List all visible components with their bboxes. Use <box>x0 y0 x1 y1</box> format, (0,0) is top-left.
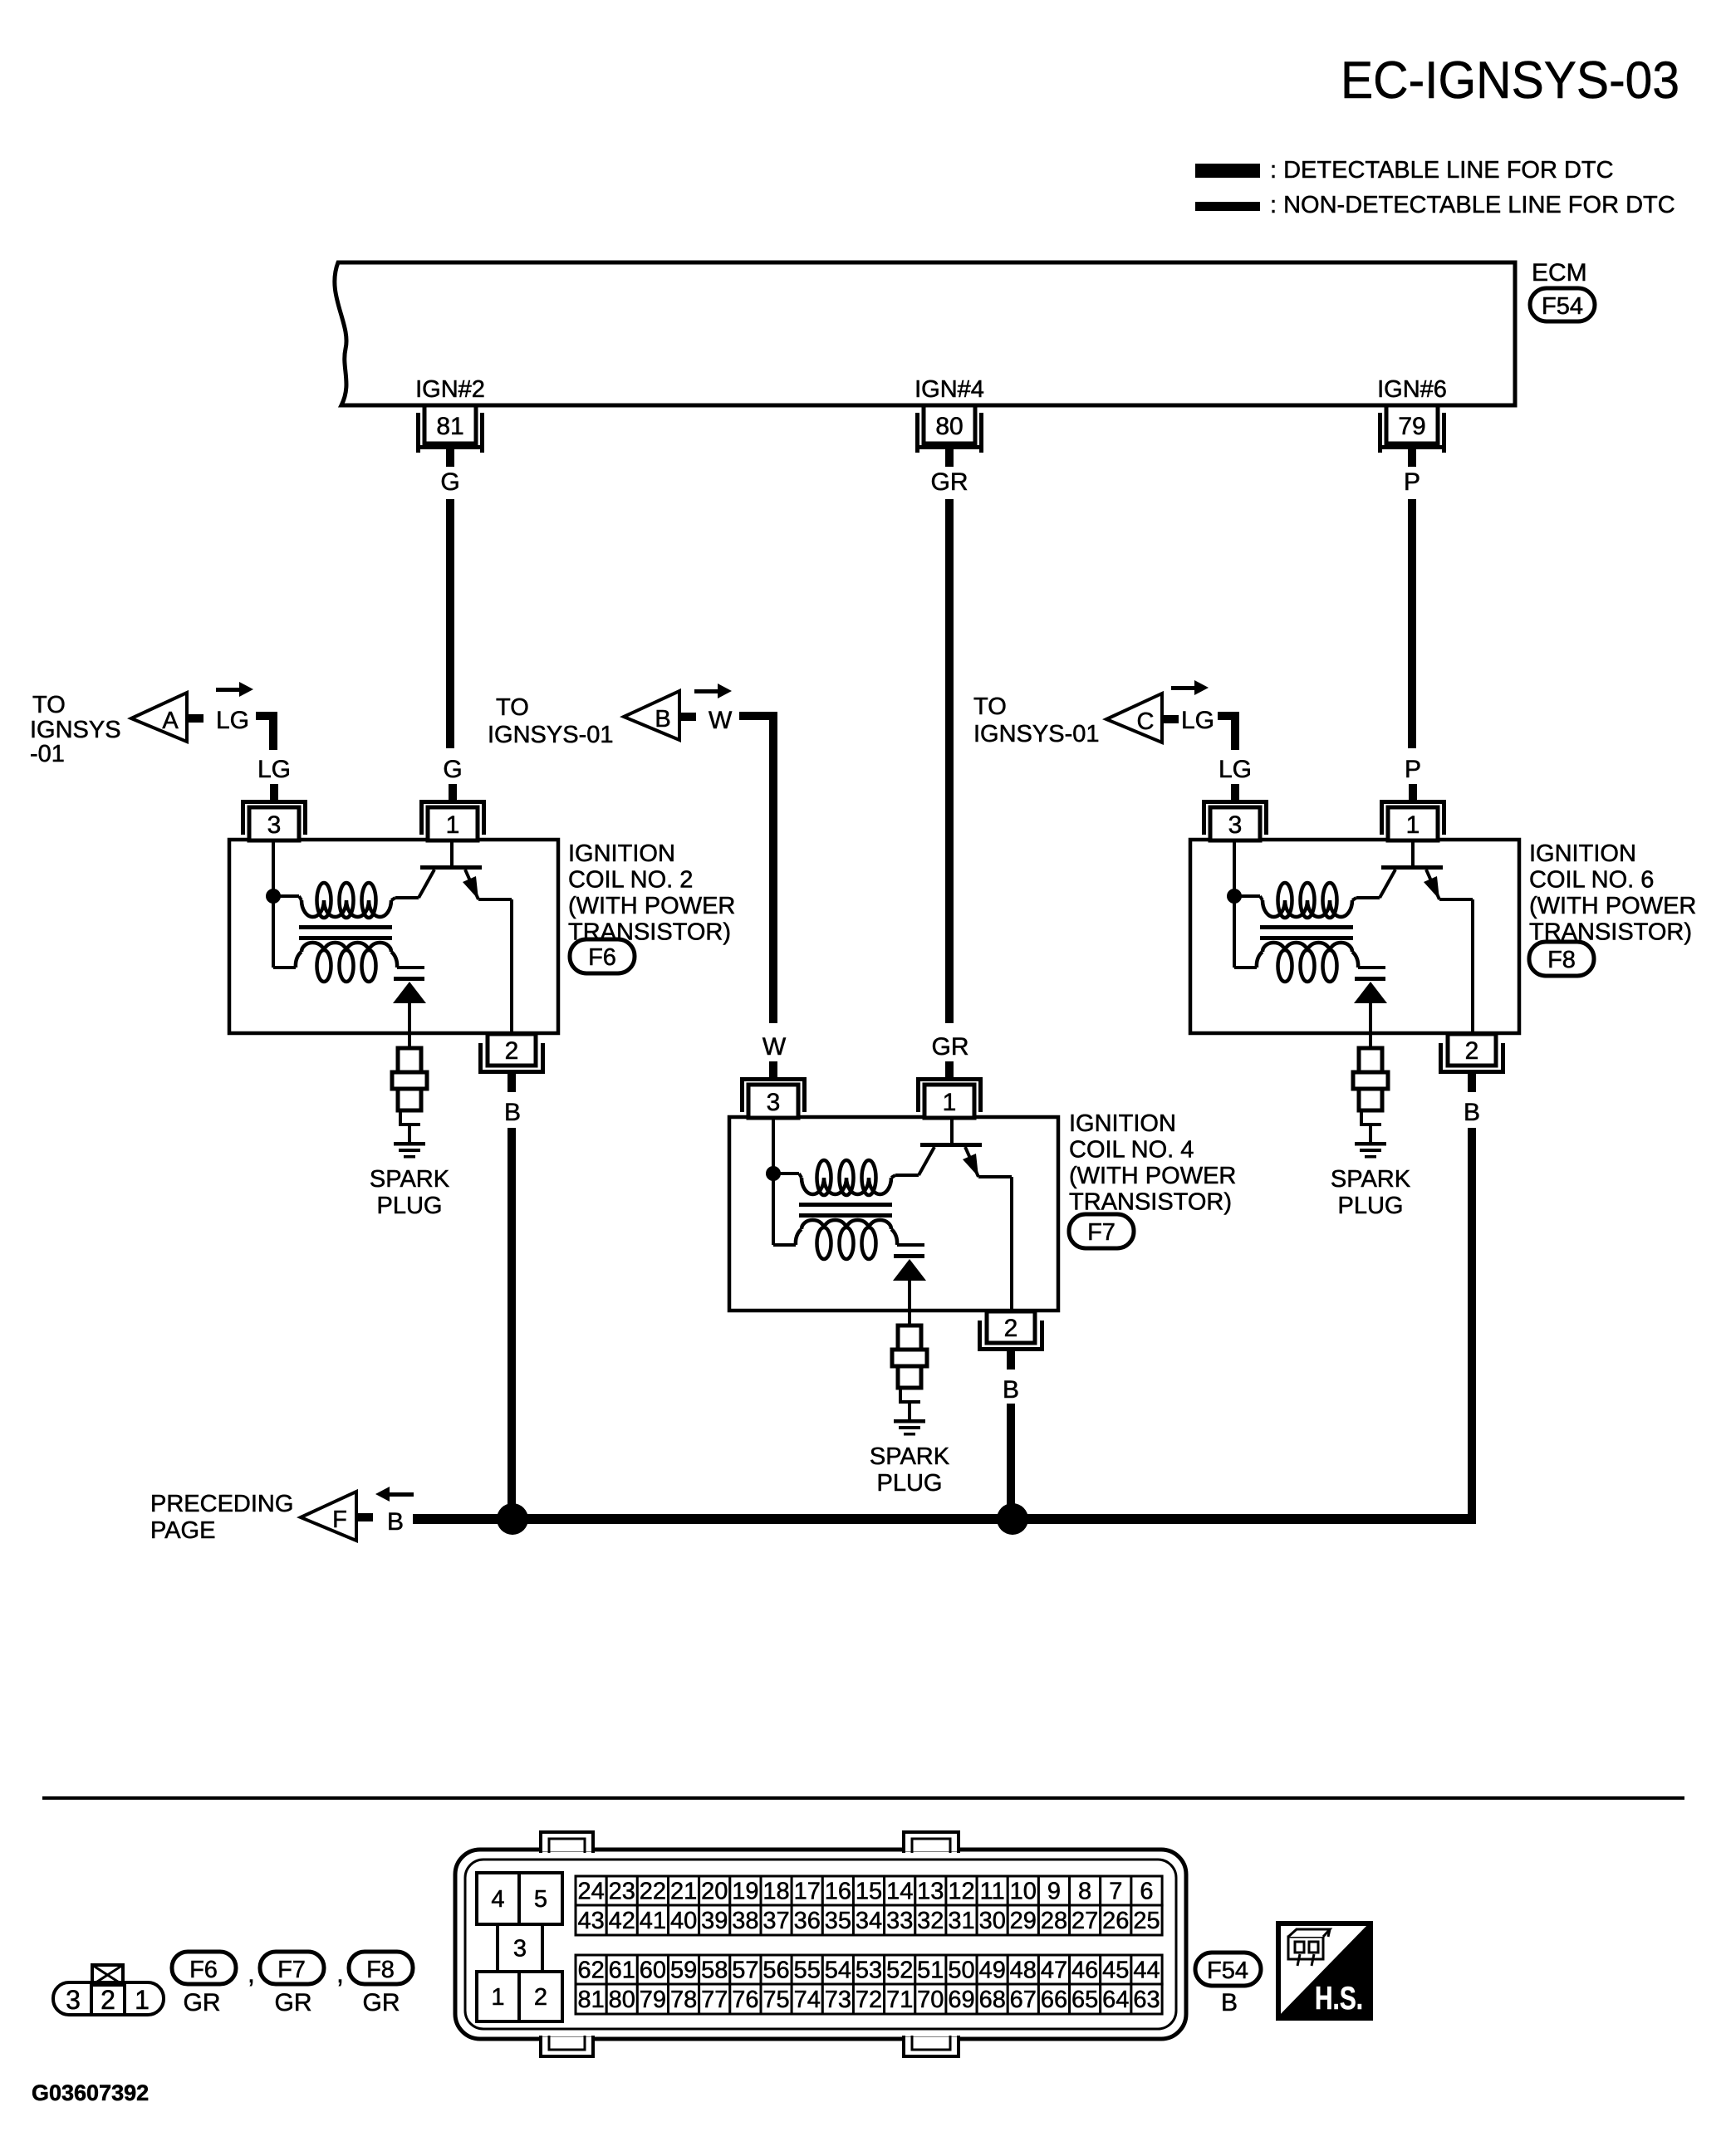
svg-text:16: 16 <box>825 1879 851 1905</box>
svg-text:W: W <box>762 1033 787 1061</box>
svg-text:2: 2 <box>1465 1037 1479 1065</box>
svg-text:G: G <box>440 468 459 496</box>
svg-text:41: 41 <box>640 1908 666 1934</box>
svg-text:3: 3 <box>66 1985 81 2015</box>
svg-text:19: 19 <box>732 1879 758 1905</box>
svg-text:GR: GR <box>363 1989 400 2016</box>
svg-text:SPARK: SPARK <box>370 1166 450 1193</box>
svg-text:67: 67 <box>1010 1987 1037 2013</box>
svg-text:63: 63 <box>1133 1987 1160 2013</box>
svg-text:3: 3 <box>767 1089 781 1116</box>
svg-text:PRECEDING: PRECEDING <box>150 1491 293 1517</box>
svg-text:35: 35 <box>825 1908 851 1934</box>
svg-text:81: 81 <box>436 413 463 440</box>
svg-text:61: 61 <box>609 1958 635 1984</box>
svg-text:H.S.: H.S. <box>1315 1981 1363 2016</box>
svg-text:60: 60 <box>640 1958 666 1984</box>
svg-text:56: 56 <box>762 1958 789 1984</box>
svg-text:40: 40 <box>670 1908 697 1934</box>
svg-text:71: 71 <box>886 1987 913 2013</box>
svg-text:44: 44 <box>1133 1958 1160 1984</box>
svg-text:F7: F7 <box>1087 1219 1116 1246</box>
svg-text:66: 66 <box>1041 1987 1067 2013</box>
svg-text:1: 1 <box>1406 811 1420 839</box>
svg-text:24: 24 <box>577 1879 604 1905</box>
svg-text:: NON-DETECTABLE LINE FOR DTC: : NON-DETECTABLE LINE FOR DTC <box>1270 192 1675 218</box>
svg-text:GR: GR <box>184 1989 221 2016</box>
svg-text:26: 26 <box>1102 1908 1129 1934</box>
svg-text:2: 2 <box>534 1984 547 2011</box>
svg-text:IGNITION: IGNITION <box>1069 1110 1176 1137</box>
svg-text:F8: F8 <box>366 1957 395 1983</box>
svg-text:69: 69 <box>948 1987 974 2013</box>
svg-text:B: B <box>1464 1099 1480 1126</box>
svg-text:8: 8 <box>1078 1879 1091 1905</box>
svg-text:F54: F54 <box>1542 293 1583 320</box>
svg-text:IGN#4: IGN#4 <box>914 376 984 403</box>
svg-text:31: 31 <box>948 1908 974 1934</box>
svg-text:F6: F6 <box>588 944 616 971</box>
svg-text:54: 54 <box>825 1958 851 1984</box>
svg-text:C: C <box>1137 708 1155 735</box>
svg-text:TO: TO <box>973 693 1007 720</box>
svg-text:F6: F6 <box>189 1957 218 1983</box>
svg-text:SPARK: SPARK <box>870 1443 950 1470</box>
svg-text:(WITH POWER: (WITH POWER <box>568 893 735 919</box>
svg-text:(WITH POWER: (WITH POWER <box>1069 1163 1236 1189</box>
svg-text:45: 45 <box>1102 1958 1129 1984</box>
svg-text:79: 79 <box>1398 413 1425 440</box>
svg-text:14: 14 <box>886 1879 913 1905</box>
svg-text:COIL NO. 4: COIL NO. 4 <box>1069 1137 1194 1164</box>
svg-text:36: 36 <box>794 1908 821 1934</box>
svg-text:38: 38 <box>732 1908 758 1934</box>
svg-text:55: 55 <box>794 1958 821 1984</box>
svg-text:17: 17 <box>794 1879 821 1905</box>
svg-text:F54: F54 <box>1207 1958 1248 1984</box>
svg-text:IGNSYS-01: IGNSYS-01 <box>488 722 614 748</box>
svg-text:49: 49 <box>979 1958 1006 1984</box>
svg-text:LG: LG <box>216 707 249 734</box>
svg-text:21: 21 <box>670 1879 697 1905</box>
svg-text:B: B <box>387 1508 404 1536</box>
svg-text:4: 4 <box>491 1886 504 1913</box>
svg-text:GR: GR <box>275 1989 312 2016</box>
svg-text:1: 1 <box>943 1089 957 1116</box>
svg-text:IGNITION: IGNITION <box>568 840 675 867</box>
svg-text:11: 11 <box>980 1879 1005 1905</box>
svg-text:: DETECTABLE LINE FOR DTC: : DETECTABLE LINE FOR DTC <box>1270 157 1614 184</box>
svg-text:65: 65 <box>1071 1987 1098 2013</box>
svg-text:TRANSISTOR): TRANSISTOR) <box>1069 1189 1232 1216</box>
svg-text:1: 1 <box>135 1985 150 2015</box>
svg-text:48: 48 <box>1010 1958 1037 1984</box>
svg-text:74: 74 <box>794 1987 821 2013</box>
svg-text:6: 6 <box>1140 1879 1153 1905</box>
svg-text:TO: TO <box>32 692 66 718</box>
svg-text:B: B <box>1221 1989 1238 2016</box>
svg-text:2: 2 <box>505 1037 519 1065</box>
svg-text:39: 39 <box>701 1908 728 1934</box>
svg-text:2: 2 <box>1004 1315 1018 1342</box>
svg-text:LG: LG <box>1218 756 1252 783</box>
svg-text:B: B <box>1003 1376 1019 1404</box>
svg-text:22: 22 <box>640 1879 666 1905</box>
svg-text:P: P <box>1404 468 1420 496</box>
svg-text:37: 37 <box>762 1908 789 1934</box>
svg-text:70: 70 <box>917 1987 944 2013</box>
svg-text:PLUG: PLUG <box>377 1193 443 1219</box>
svg-text:-01: -01 <box>30 741 65 767</box>
svg-text:ECM: ECM <box>1532 259 1587 287</box>
svg-text:30: 30 <box>979 1908 1006 1934</box>
svg-text:53: 53 <box>856 1958 882 1984</box>
svg-text:9: 9 <box>1047 1879 1061 1905</box>
svg-text:29: 29 <box>1010 1908 1037 1934</box>
svg-text:77: 77 <box>701 1987 728 2013</box>
svg-text:1: 1 <box>446 811 460 839</box>
svg-text:TRANSISTOR): TRANSISTOR) <box>568 919 731 946</box>
svg-text:G03607392: G03607392 <box>32 2080 149 2105</box>
svg-text:F: F <box>332 1507 347 1533</box>
svg-text:43: 43 <box>577 1908 604 1934</box>
svg-text:52: 52 <box>886 1958 913 1984</box>
svg-text:23: 23 <box>609 1879 635 1905</box>
svg-text:IGNSYS-01: IGNSYS-01 <box>973 721 1100 747</box>
svg-text:COIL NO. 6: COIL NO. 6 <box>1529 867 1654 894</box>
svg-text:81: 81 <box>577 1987 604 2013</box>
svg-text:,: , <box>248 1958 255 1988</box>
svg-text:32: 32 <box>917 1908 944 1934</box>
svg-text:A: A <box>162 708 179 734</box>
svg-text:51: 51 <box>917 1958 944 1984</box>
svg-text:3: 3 <box>1228 811 1243 839</box>
svg-text:IGNSYS: IGNSYS <box>30 717 121 743</box>
svg-text:64: 64 <box>1102 1987 1129 2013</box>
svg-text:20: 20 <box>701 1879 728 1905</box>
svg-text:12: 12 <box>948 1879 974 1905</box>
svg-text:LG: LG <box>1181 707 1214 734</box>
svg-text:(WITH POWER: (WITH POWER <box>1529 893 1696 919</box>
svg-text:25: 25 <box>1133 1908 1160 1934</box>
svg-text:GR: GR <box>931 468 968 496</box>
svg-text:TO: TO <box>496 694 529 721</box>
svg-text:G: G <box>443 756 462 783</box>
svg-text:COIL NO. 2: COIL NO. 2 <box>568 867 693 894</box>
svg-text:B: B <box>504 1099 521 1126</box>
svg-text:EC-IGNSYS-03: EC-IGNSYS-03 <box>1341 51 1679 110</box>
svg-text:LG: LG <box>257 756 291 783</box>
svg-text:59: 59 <box>670 1958 697 1984</box>
svg-text:68: 68 <box>979 1987 1006 2013</box>
svg-text:73: 73 <box>825 1987 851 2013</box>
svg-text:75: 75 <box>762 1987 789 2013</box>
svg-text:IGN#6: IGN#6 <box>1377 376 1447 403</box>
svg-text:PAGE: PAGE <box>150 1517 215 1544</box>
svg-text:3: 3 <box>513 1936 527 1962</box>
svg-text:F7: F7 <box>277 1957 306 1983</box>
svg-text:42: 42 <box>609 1908 635 1934</box>
svg-text:15: 15 <box>856 1879 882 1905</box>
svg-text:50: 50 <box>948 1958 974 1984</box>
svg-text:5: 5 <box>534 1886 547 1913</box>
svg-text:,: , <box>336 1958 344 1988</box>
svg-text:18: 18 <box>762 1879 789 1905</box>
svg-text:13: 13 <box>917 1879 944 1905</box>
svg-text:80: 80 <box>609 1987 635 2013</box>
svg-text:10: 10 <box>1010 1879 1037 1905</box>
svg-text:79: 79 <box>640 1987 666 2013</box>
svg-text:78: 78 <box>670 1987 697 2013</box>
svg-text:GR: GR <box>932 1033 969 1061</box>
svg-text:33: 33 <box>886 1908 913 1934</box>
svg-text:IGNITION: IGNITION <box>1529 840 1636 867</box>
svg-text:62: 62 <box>577 1958 604 1984</box>
svg-text:1: 1 <box>491 1984 504 2011</box>
svg-text:27: 27 <box>1071 1908 1098 1934</box>
svg-text:PLUG: PLUG <box>1338 1193 1404 1219</box>
svg-text:72: 72 <box>856 1987 882 2013</box>
svg-text:76: 76 <box>732 1987 758 2013</box>
svg-text:80: 80 <box>935 413 963 440</box>
svg-text:57: 57 <box>732 1958 758 1984</box>
svg-text:P: P <box>1405 756 1421 783</box>
svg-text:2: 2 <box>101 1985 115 2015</box>
svg-text:7: 7 <box>1109 1879 1122 1905</box>
svg-text:58: 58 <box>701 1958 728 1984</box>
svg-text:3: 3 <box>267 811 282 839</box>
svg-text:SPARK: SPARK <box>1331 1166 1411 1193</box>
svg-text:28: 28 <box>1041 1908 1067 1934</box>
svg-text:IGN#2: IGN#2 <box>415 376 485 403</box>
svg-text:W: W <box>709 707 733 734</box>
svg-text:46: 46 <box>1071 1958 1098 1984</box>
svg-text:PLUG: PLUG <box>877 1470 943 1497</box>
svg-text:47: 47 <box>1041 1958 1067 1984</box>
svg-text:34: 34 <box>856 1908 882 1934</box>
svg-text:F8: F8 <box>1547 947 1576 973</box>
svg-text:B: B <box>655 706 670 733</box>
